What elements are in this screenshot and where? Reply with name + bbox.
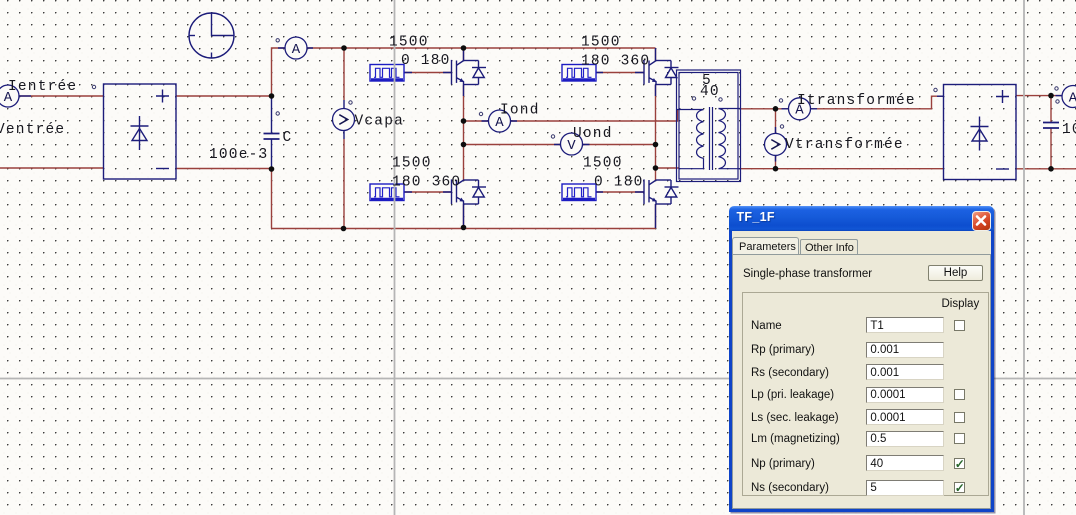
- junction node leg A mid (Iond): [461, 118, 467, 124]
- wire right leg midpoint segment: [655, 85, 657, 181]
- wire bridge + output to node DC+: [176, 95, 272, 97]
- capacitor C1 leads: [271, 96, 273, 169]
- IGBT Q2 bottom-left: [452, 179, 487, 204]
- svg-text:0 180: 0 180: [401, 53, 451, 69]
- IGBT Q1 top-left: [452, 60, 487, 85]
- wire bridge2 - output rail: [1016, 168, 1076, 170]
- row Rs (secondary): [751, 367, 829, 379]
- schematic text labels: [0, 35, 1076, 191]
- svg-text:C: C: [283, 130, 293, 146]
- ammeter Itransformee: [789, 98, 811, 120]
- wire gate drive G4: [596, 191, 645, 193]
- port ammeter A1: [276, 39, 279, 42]
- port transformer secondary: [719, 98, 722, 101]
- port bridge2 input: [934, 88, 937, 91]
- close button: [972, 211, 991, 231]
- svg-text:Iond: Iond: [500, 103, 540, 119]
- svg-text:1500: 1500: [581, 35, 621, 51]
- wire left leg midpoint segment: [463, 85, 465, 181]
- tab Parameters (active): [732, 237, 799, 255]
- wire gate drive G3: [596, 72, 645, 74]
- voltmeter Vcapa lead stubs: [343, 100, 345, 139]
- wire Vtransformee lower lead: [775, 155, 777, 168]
- junction node secondary top: [773, 106, 779, 112]
- wire Vcapa lower riser to bottom rail: [343, 139, 345, 229]
- junction node output -: [1048, 166, 1054, 172]
- wire Uond branch left: [464, 144, 562, 146]
- button Help: [928, 265, 984, 282]
- transformer T1: [677, 70, 742, 182]
- wire DC- bottom rail: [272, 228, 656, 230]
- svg-text:1500: 1500: [389, 35, 429, 51]
- junction node leg A collector: [461, 45, 467, 51]
- svg-text:1500: 1500: [583, 156, 623, 172]
- port capacitor C1: [276, 112, 279, 115]
- junction node leg A mid (Uond): [461, 142, 467, 148]
- svg-text:40: 40: [700, 84, 720, 100]
- junction node DC+ bridge1: [269, 93, 275, 99]
- port bridge1 input: [92, 85, 95, 88]
- wire secondary top to Itransformee: [741, 108, 789, 110]
- svg-text:Vtransformée: Vtransformée: [785, 137, 904, 153]
- gating block G4: [562, 184, 596, 201]
- ammeter A1 (dc link): [285, 37, 307, 59]
- dialog frame / body: [729, 231, 994, 512]
- label single-phase transformer: [743, 268, 872, 280]
- voltmeter Vcapa: [333, 109, 355, 131]
- wire Vcapa upper lead riser: [343, 48, 345, 100]
- junction node Vcapa bottom: [341, 226, 347, 232]
- gating block G3: [562, 65, 596, 82]
- wire Iond to transformer primary top: [511, 110, 678, 122]
- junction node leg B primary: [653, 165, 659, 171]
- wire left leg collector stub: [463, 48, 465, 61]
- wire right leg collector stub: [655, 48, 657, 61]
- wire input bottom (Ventree to bridge): [0, 167, 104, 169]
- port ammeter Iond: [479, 112, 482, 115]
- svg-text:100e-3: 100e-3: [1062, 122, 1076, 138]
- voltmeter Vtransformee: [765, 133, 787, 155]
- gating block G1: [370, 65, 404, 82]
- wire Uond branch right: [583, 144, 656, 146]
- row Lm (magnetizing): [751, 433, 840, 445]
- row Name: [751, 320, 782, 332]
- wire Itransformee to bridge2: [811, 96, 944, 109]
- port transformer primary: [692, 97, 695, 100]
- wire capacitor C2 leads: [1050, 96, 1052, 169]
- port voltmeter Vtransformee: [780, 125, 783, 128]
- IGBT Q3 top-right: [644, 60, 679, 85]
- wire Vtransformee upper lead: [775, 109, 777, 134]
- port voltmeter Uond: [551, 135, 554, 138]
- voltmeter Uond: [561, 133, 583, 155]
- junction node leg A emitter: [461, 225, 467, 231]
- junction node leg B mid (Uond): [653, 142, 659, 148]
- svg-text:Itransformée: Itransformée: [797, 93, 916, 109]
- svg-text:Ventrée: Ventrée: [0, 122, 65, 138]
- wire transformer primary bottom: [656, 167, 680, 169]
- junction node DC- bridge1: [269, 166, 275, 172]
- ammeter output right edge: [1062, 86, 1076, 108]
- ammeter Ientree: [0, 85, 19, 107]
- component pin stubs (navy): [464, 48, 656, 61]
- wire right leg emitter to bottom rail: [655, 204, 657, 229]
- wire DC+ top rail: [307, 47, 656, 49]
- port output ammeter a: [1055, 87, 1058, 90]
- IGBT Q4 bottom-right: [644, 179, 679, 204]
- dialog title bar: [729, 206, 994, 231]
- row Lp (pri. leakage): [751, 389, 834, 401]
- dialog TF_1F (transformer parameters): [729, 206, 994, 512]
- capacitor C2 plates: [1043, 123, 1059, 129]
- wire input top (Ientree to bridge): [18, 95, 104, 97]
- port ammeter Itransformee: [779, 99, 782, 102]
- svg-text:180 360: 180 360: [581, 54, 650, 70]
- ammeter Iond: [489, 110, 511, 132]
- svg-text:1500: 1500: [392, 156, 432, 172]
- port output ammeter b: [1056, 100, 1059, 103]
- row Np (primary): [751, 458, 815, 470]
- junction node output +: [1048, 93, 1054, 99]
- port voltmeter Vcapa: [349, 101, 352, 104]
- label Display: [942, 298, 980, 310]
- wire bridge2 + to output node: [1016, 95, 1063, 97]
- wire left leg emitter to bottom rail: [463, 204, 465, 229]
- diode bridge rectifier 1 (input): [104, 84, 177, 179]
- junction node Vcapa top: [341, 45, 347, 51]
- svg-text:100e-3: 100e-3: [209, 147, 268, 163]
- row Ls (sec. leakage): [751, 412, 839, 424]
- svg-text:180 360: 180 360: [392, 175, 461, 191]
- wire Iond branch left: [464, 120, 489, 122]
- wire gate drive G1: [404, 72, 452, 74]
- row Ns (secondary): [751, 482, 829, 494]
- gating block G2: [370, 184, 404, 201]
- wire riser to ammeter A1: [272, 48, 286, 96]
- svg-text:0 180: 0 180: [594, 175, 644, 191]
- junction node secondary bottom: [773, 166, 779, 172]
- tab panel: [732, 254, 991, 509]
- group box: [742, 292, 989, 497]
- wire gate drive G2: [404, 191, 452, 193]
- svg-text:Ientrée: Ientrée: [8, 79, 77, 95]
- svg-text:Vcapa: Vcapa: [355, 114, 405, 130]
- capacitor C1 plates: [264, 134, 280, 140]
- diode bridge rectifier 2 (output): [944, 85, 1017, 180]
- tab Other Info (inactive): [800, 239, 858, 255]
- wire secondary bottom to bridge2: [741, 168, 944, 170]
- wire DC- left riser: [271, 169, 273, 229]
- clock / time source symbol: [189, 13, 234, 58]
- svg-text:Uond: Uond: [573, 126, 613, 142]
- wire bridge - output to capacitor bottom node: [176, 168, 272, 170]
- row Rp (primary): [751, 344, 815, 356]
